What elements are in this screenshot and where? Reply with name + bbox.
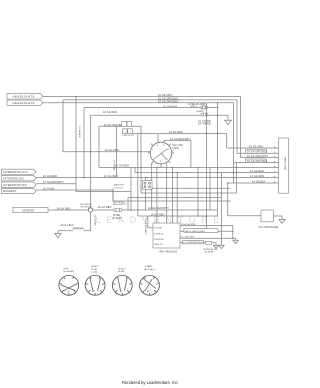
svg-text:16 GA ORG/BLK: 16 GA ORG/BLK	[104, 124, 125, 127]
junction	[140, 167, 142, 169]
wire key switch top stub up	[157, 134, 159, 141]
wire	[75, 96, 77, 183]
svg-text:16 GA PUR: 16 GA PUR	[163, 105, 177, 108]
svg-text:HEADLIGHTS: HEADLIGHTS	[13, 101, 35, 105]
wire 16 GA RED/WHT alternator DC	[36, 184, 131, 192]
ground seat switch	[220, 243, 222, 245]
junction	[233, 172, 235, 174]
svg-text:Rendered by LeadVenture, Inc.: Rendered by LeadVenture, Inc.	[122, 380, 179, 385]
wire vertical 16 GA PUR drop	[83, 107, 85, 177]
wire oil pressure inlet	[228, 215, 261, 217]
svg-text:20 AMP: 20 AMP	[112, 217, 122, 220]
svg-text:BLACK: BLACK	[197, 110, 205, 113]
svg-text:(ATC): (ATC)	[190, 105, 197, 108]
svg-text:(B+S+A1): (B+S+A1)	[144, 268, 155, 271]
svg-text:16 GA RED: 16 GA RED	[115, 165, 129, 168]
svg-text:18 GA RED: 18 GA RED	[103, 111, 117, 114]
junction	[83, 177, 85, 179]
junction	[217, 107, 219, 109]
wire black to ground	[91, 114, 202, 116]
svg-text:N 14 GA GRN: N 14 GA GRN	[180, 236, 194, 239]
svg-text:OR SHUNT: OR SHUNT	[80, 206, 92, 208]
svg-text:RUN 2: RUN 2	[119, 268, 127, 270]
fuse 20 amp symbol	[188, 103, 207, 109]
solenoid circle	[80, 204, 93, 212]
wire vertical x116	[116, 126, 118, 177]
fuse 20 amp lower	[112, 209, 122, 220]
relay / flasher component	[114, 181, 152, 190]
svg-text:IG PNP: IG PNP	[155, 228, 163, 230]
wire solenoid to fuse	[93, 209, 114, 211]
svg-text:16 GA RED/WHT: 16 GA RED/WHT	[148, 207, 169, 210]
svg-text:A1: A1	[120, 290, 122, 293]
svg-text:(G+M+A1): (G+M+A1)	[63, 270, 74, 273]
junction	[217, 114, 219, 116]
svg-text:14 GA RED/BLK: 14 GA RED/BLK	[144, 218, 147, 235]
svg-text:16 GA ORG/BLK: 16 GA ORG/BLK	[247, 160, 268, 163]
svg-text:PWR PORT: PWR PORT	[123, 135, 135, 137]
wire battery negative	[58, 230, 73, 232]
wire	[127, 198, 129, 211]
svg-text:ON SEAT: ON SEAT	[204, 251, 214, 254]
svg-text:18 GA RED: 18 GA RED	[94, 215, 97, 227]
ground row4	[213, 245, 218, 248]
svg-text:16 GA RED: 16 GA RED	[57, 207, 71, 210]
wire row2 boxed label	[180, 230, 233, 232]
svg-text:A1: A1	[147, 290, 149, 293]
svg-text:REV MODULE: REV MODULE	[160, 251, 178, 254]
wire row1	[227, 147, 279, 149]
svg-text:16 GA RED: 16 GA RED	[78, 126, 81, 138]
svg-text:12 VOLT: 12 VOLT	[114, 187, 124, 189]
wire	[112, 189, 114, 202]
junction	[232, 238, 234, 240]
inline connector pair lower	[123, 129, 135, 137]
svg-text:16 GA RED: 16 GA RED	[98, 206, 112, 209]
wire vertical bus x217	[217, 103, 219, 216]
connector J1	[279, 138, 289, 193]
svg-text:16 GA RED: 16 GA RED	[151, 213, 165, 216]
svg-text:N 14 GA GRN: N 14 GA GRN	[181, 223, 196, 226]
junction	[227, 182, 229, 184]
junction	[217, 172, 219, 174]
wire oil pressure to ground	[273, 216, 282, 220]
wire 16 GA RED (key feed)	[132, 134, 226, 148]
svg-text:L: L	[153, 149, 154, 151]
headlight box 1	[7, 94, 43, 99]
wire	[130, 168, 132, 211]
connector pin ticks	[274, 146, 276, 148]
junction	[217, 102, 219, 104]
12 V PWR label	[198, 120, 211, 126]
svg-text:16 GA ORG: 16 GA ORG	[249, 145, 263, 148]
svg-text:16 GA ORG/WHT: 16 GA ORG/WHT	[247, 155, 269, 158]
svg-text:16 GA RED/WHT: 16 GA RED/WHT	[170, 138, 191, 141]
wire	[197, 168, 199, 217]
wire	[176, 173, 178, 224]
wire	[172, 168, 174, 224]
wire	[140, 126, 142, 193]
svg-text:27 GA RED/WHT: 27 GA RED/WHT	[43, 181, 64, 184]
wire row4	[234, 162, 279, 164]
wire vertical to solenoid	[90, 115, 92, 208]
svg-text:(IGN): (IGN)	[173, 147, 180, 150]
wire 16 GA BLK magneto	[36, 190, 230, 201]
wire	[145, 178, 147, 211]
wire	[151, 163, 153, 210]
svg-text:16 GA RED: 16 GA RED	[43, 175, 57, 178]
module box U2	[153, 223, 180, 254]
wire solenoid down	[90, 212, 92, 231]
svg-text:16 GA BL: 16 GA BL	[43, 187, 55, 190]
wire fuse to right	[122, 209, 218, 211]
wire vertical x99	[98, 126, 100, 167]
svg-text:14 GA BLK: 14 GA BLK	[252, 181, 266, 184]
junction	[197, 215, 199, 217]
wire	[209, 168, 211, 211]
svg-text:A2: A2	[167, 148, 169, 151]
svg-text:MAGNETO: MAGNETO	[3, 190, 16, 193]
wire 16 GA PUR + fuse	[84, 106, 201, 108]
junction	[206, 215, 208, 217]
wire	[228, 182, 279, 184]
wire	[63, 100, 150, 152]
svg-text:+1 14 GA RED/BLK: +1 14 GA RED/BLK	[183, 241, 203, 244]
junction	[145, 177, 147, 179]
wire	[236, 163, 238, 194]
switch position circle RUN2	[112, 268, 132, 295]
svg-text:16 GA RED: 16 GA RED	[169, 131, 183, 134]
alternator (DC) box	[2, 182, 37, 187]
wire row4 + resistor	[180, 242, 206, 244]
key switch U1	[148, 140, 174, 166]
wire	[135, 172, 279, 174]
wire headlight 2 (16 GA ORG/BLK)	[43, 103, 234, 183]
wire row1	[180, 225, 233, 227]
headlight box 2	[7, 100, 43, 105]
junction	[176, 172, 178, 174]
coil winding	[73, 228, 83, 230]
ground row3	[233, 238, 239, 243]
svg-text:STARTER: STARTER	[22, 209, 34, 212]
wire 16 GA RED afterfire	[36, 177, 279, 179]
wire row3	[180, 237, 236, 239]
wire 16 GA ORG/BLK to power port	[99, 125, 122, 127]
svg-text:HEADLIGHTS: HEADLIGHTS	[13, 95, 35, 99]
ground starter	[55, 231, 61, 238]
ground row1	[232, 226, 234, 239]
wire	[160, 166, 162, 167]
wire T2 (16 GA ORG/BLK)	[63, 100, 237, 153]
wire	[141, 192, 237, 194]
svg-text:A1: A1	[68, 290, 70, 293]
wire row3	[241, 157, 279, 159]
svg-text:START: START	[145, 265, 153, 268]
svg-text:MAIN HARN: MAIN HARN	[284, 157, 287, 171]
svg-text:16 GA ORG/BLK: 16 GA ORG/BLK	[158, 101, 179, 104]
wire 16 GA RED	[48, 209, 89, 211]
junction	[197, 167, 199, 169]
svg-text:OFF: OFF	[64, 268, 69, 270]
junction	[90, 151, 92, 153]
junction	[130, 209, 132, 211]
switch position circle START	[140, 265, 160, 295]
reverse switch text	[203, 249, 218, 254]
svg-text:-18 GA BLK: -18 GA BLK	[60, 224, 75, 227]
junction	[233, 177, 235, 179]
svg-text:AFTERFIRE SOL.: AFTERFIRE SOL.	[3, 177, 25, 180]
svg-text:16 GA ORG/BLK: 16 GA ORG/BLK	[247, 151, 268, 154]
svg-text:ALTERNATOR (DC): ALTERNATOR (DC)	[3, 184, 27, 187]
arrow inside	[155, 150, 167, 159]
svg-text:BATTERY: BATTERY	[114, 184, 125, 187]
stubs	[157, 140, 160, 142]
junction	[206, 133, 208, 135]
svg-text:RUN 1: RUN 1	[92, 266, 100, 268]
svg-text:B+A1: B+A1	[119, 270, 126, 273]
wire oil pressure feed	[138, 215, 218, 217]
wire	[128, 197, 221, 199]
svg-text:FUSE IN: FUSE IN	[155, 233, 164, 235]
wire drop to oil pressure	[227, 183, 229, 216]
svg-text:MA 14 GA BLK/WHT: MA 14 GA BLK/WHT	[185, 230, 206, 233]
svg-text:A2: A2	[93, 290, 95, 293]
wire 16 GA RED/WHT from key switch	[164, 141, 191, 168]
wire	[99, 167, 279, 169]
wire	[134, 168, 136, 173]
svg-text:16 GA RED: 16 GA RED	[113, 160, 116, 172]
junction	[232, 231, 234, 233]
svg-text:16 GA RED: 16 GA RED	[250, 170, 264, 173]
wire	[141, 187, 230, 189]
svg-text:ALTERNATOR (A/C): ALTERNATOR (A/C)	[3, 171, 28, 174]
svg-text:B+A1: B+A1	[92, 268, 99, 271]
wire	[166, 163, 168, 223]
switch position circle OFF	[59, 268, 79, 295]
wire	[220, 173, 222, 244]
afterfire solenoid box	[2, 176, 37, 181]
svg-text:REGULATOR: REGULATOR	[113, 203, 127, 206]
wire headlight 1 (16 GA ORG)	[43, 96, 241, 157]
svg-text:14 GA GRN: 14 GA GRN	[250, 175, 264, 178]
wire	[137, 134, 139, 216]
starter box	[13, 207, 48, 212]
svg-text:GROUND: GROUND	[155, 239, 165, 241]
wire	[148, 216, 153, 228]
junction	[217, 133, 219, 135]
wire row2	[237, 152, 279, 154]
switch position circle RUN1	[85, 266, 105, 295]
oil pressure switch	[259, 210, 279, 229]
svg-text:(AT REAR): (AT REAR)	[198, 123, 211, 126]
svg-text:OIL PRESSURE: OIL PRESSURE	[259, 226, 279, 229]
junction	[206, 114, 208, 116]
wire	[156, 168, 158, 224]
junction	[156, 167, 158, 169]
svg-text:16 GA RED: 16 GA RED	[104, 175, 118, 178]
ground oil pressure	[279, 220, 285, 224]
alternator (A/C) box	[2, 169, 37, 174]
inline connector pair upper	[122, 121, 132, 126]
svg-text:L+A2: L+A2	[92, 271, 98, 274]
ground (12v pwr)	[225, 115, 232, 124]
junction	[172, 167, 174, 169]
svg-text:MAG IN: MAG IN	[155, 243, 163, 246]
wire	[205, 103, 207, 232]
magneto box	[2, 188, 37, 193]
